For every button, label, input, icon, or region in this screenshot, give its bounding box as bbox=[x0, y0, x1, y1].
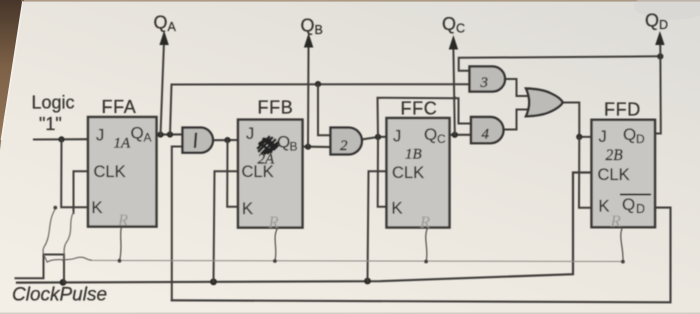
reset drop FFA (pencil) bbox=[120, 227, 122, 261]
svg-text:R: R bbox=[419, 213, 430, 232]
svg-text:K: K bbox=[392, 200, 403, 218]
node: QA line to gate2 junction bbox=[315, 81, 321, 87]
node: FFD J junction bbox=[576, 134, 582, 140]
wire: FFB J-K tie bbox=[227, 140, 238, 207]
node: FFB J junction bbox=[224, 137, 230, 143]
node: reset dot FFD bbox=[621, 260, 625, 264]
svg-text:Q: Q bbox=[424, 125, 437, 144]
svg-text:K: K bbox=[242, 200, 253, 218]
wire: QA feedback long line to gate 3 bbox=[170, 84, 470, 134]
node: QB dot bbox=[305, 144, 311, 150]
pencil squiggle b (FFA K area) bbox=[43, 209, 55, 263]
svg-text:Q: Q bbox=[154, 13, 168, 33]
wire: FFD J-K tie bbox=[579, 137, 592, 208]
paper edge highlight bbox=[2, 1, 24, 140]
svg-text:1A: 1A bbox=[114, 136, 132, 152]
wire: QD output and arrow riser bbox=[655, 44, 661, 134]
wire: QC arrow riser bbox=[453, 49, 454, 135]
AND gate 1 bbox=[183, 128, 213, 153]
reset drop FFB (pencil) bbox=[275, 228, 278, 261]
flip-flop FFA bbox=[88, 117, 157, 227]
svg-text:3: 3 bbox=[480, 75, 489, 91]
node: Logic-1 junction bbox=[58, 136, 64, 142]
svg-text:C: C bbox=[456, 22, 465, 36]
node: reset dot FFA bbox=[118, 259, 122, 263]
arrowhead QA bbox=[159, 31, 168, 46]
wire: QD top feedback line to gate 3 bbox=[459, 56, 661, 71]
AND gate 3 bbox=[470, 66, 505, 91]
node: QA dot 1 bbox=[157, 132, 163, 138]
svg-text:D: D bbox=[636, 202, 645, 216]
wire: clock bus bbox=[17, 173, 592, 283]
wire: NOT-Q D riser to gate 1 lower input bbox=[172, 147, 183, 301]
wire: gate 2 output to FFC J bbox=[362, 137, 387, 140]
reset drop FFC (pencil) bbox=[426, 228, 428, 262]
node: QD top junction bbox=[657, 53, 663, 59]
wire: FFA CLK input L bbox=[74, 171, 89, 213]
svg-text:Logic: Logic bbox=[32, 93, 75, 113]
node: reset dot FFC bbox=[424, 260, 428, 264]
svg-text:C: C bbox=[437, 132, 446, 146]
svg-text:K: K bbox=[92, 199, 103, 217]
svg-text:R: R bbox=[610, 212, 622, 231]
svg-text:FFA: FFA bbox=[102, 97, 137, 117]
handwritten 1 in gate 1 bbox=[195, 134, 196, 147]
arrowhead QD bbox=[655, 31, 664, 45]
node: FFC J junction bbox=[375, 134, 381, 140]
svg-text:FFC: FFC bbox=[401, 99, 438, 119]
pencil squiggle c (joins reset line) bbox=[47, 257, 91, 262]
wire: QB arrow riser bbox=[307, 47, 310, 147]
svg-text:CLK: CLK bbox=[94, 163, 126, 181]
wire: QA output to gate 1 bbox=[157, 133, 183, 135]
OR gate bbox=[526, 89, 563, 117]
wire: gate2 output feedback over FFC to gate 4 bbox=[378, 98, 472, 137]
node: bus dot FFC bbox=[364, 278, 371, 285]
svg-text:"1": "1" bbox=[39, 114, 62, 134]
AND gate 4 bbox=[471, 117, 503, 143]
wire: QA arrow riser bbox=[161, 44, 164, 135]
reset drop FFD (pencil) bbox=[621, 227, 623, 261]
wire: OR output to FFD J bbox=[563, 103, 592, 137]
handwritten scribble in FFB bbox=[258, 137, 278, 154]
svg-text:R: R bbox=[268, 213, 279, 232]
node: small crossing blob on QC riser bbox=[453, 96, 456, 99]
arrowhead QB bbox=[304, 33, 313, 48]
svg-text:J: J bbox=[246, 125, 254, 143]
svg-text:2B: 2B bbox=[606, 147, 624, 164]
svg-text:J: J bbox=[96, 127, 104, 145]
bottom edge shade bbox=[0, 313, 700, 314]
wire: FFC CLK riser bbox=[368, 171, 387, 281]
svg-text:Q: Q bbox=[301, 16, 315, 36]
svg-text:J: J bbox=[599, 128, 607, 146]
svg-text:K: K bbox=[599, 198, 610, 216]
AND gate 2 bbox=[331, 128, 362, 155]
node: QA dot 2 bbox=[167, 131, 173, 137]
svg-text:4: 4 bbox=[482, 127, 490, 143]
clock pulse waveform symbol bbox=[16, 255, 65, 283]
svg-text:Q: Q bbox=[623, 125, 636, 144]
wire: drop to gate 2 top input bbox=[318, 84, 331, 135]
svg-text:Q: Q bbox=[442, 14, 456, 34]
flip-flop FFD bbox=[592, 120, 656, 227]
wood strip top edge bbox=[21, 0, 700, 2]
flip-flop FFC bbox=[387, 118, 450, 228]
svg-text:A: A bbox=[144, 131, 152, 145]
svg-text:Q: Q bbox=[131, 124, 144, 143]
node: bus dot FFB bbox=[210, 278, 217, 285]
svg-text:CLK: CLK bbox=[598, 166, 630, 184]
wire: FFB CLK riser bbox=[214, 171, 239, 281]
svg-text:Q: Q bbox=[277, 133, 290, 152]
svg-text:2A: 2A bbox=[258, 152, 276, 168]
overline for NOT-QD bbox=[621, 193, 650, 195]
wire: Logic 1 input to FFA J bbox=[34, 138, 88, 140]
node: reset dot FFB bbox=[273, 259, 277, 263]
wire: FFA J-K tie bbox=[61, 139, 88, 207]
arrowhead QC bbox=[449, 35, 458, 50]
node: QC dot bbox=[452, 132, 458, 138]
node: bus dot FFA bbox=[60, 279, 67, 286]
svg-text:A: A bbox=[168, 20, 177, 34]
flip-flop FFB bbox=[238, 120, 303, 228]
svg-text:1B: 1B bbox=[405, 147, 422, 163]
reset thin line bbox=[91, 260, 623, 261]
wire: FFC J-K tie bbox=[378, 137, 387, 207]
node: pencil dot at FFA K bbox=[53, 206, 57, 210]
svg-text:R: R bbox=[117, 211, 128, 230]
svg-text:D: D bbox=[659, 18, 668, 32]
wire: gate 4 output to OR bbox=[504, 110, 527, 130]
wire: QC output to gate 4 bbox=[450, 134, 472, 136]
svg-text:CLK: CLK bbox=[392, 164, 424, 182]
svg-text:FFD: FFD bbox=[604, 100, 641, 120]
pencil squiggle a (FFA CLK continuation) bbox=[63, 212, 74, 261]
faint shadow smudge top-right bbox=[634, 0, 700, 20]
svg-text:FFB: FFB bbox=[258, 98, 294, 118]
svg-text:J: J bbox=[393, 128, 401, 146]
svg-text:D: D bbox=[636, 132, 645, 146]
svg-text:B: B bbox=[290, 140, 298, 154]
svg-text:Q: Q bbox=[645, 11, 659, 31]
wire: NOT-QD output feedback bottom line bbox=[172, 208, 671, 303]
svg-text:ClockPulse: ClockPulse bbox=[12, 285, 107, 306]
svg-text:Q: Q bbox=[622, 195, 635, 214]
svg-text:2: 2 bbox=[340, 138, 348, 154]
wire: gate 3 output to OR bbox=[505, 79, 527, 96]
wood table corner top-left bbox=[0, 0, 24, 150]
wire: gate 1 output to FFB J bbox=[215, 139, 238, 141]
svg-text:B: B bbox=[315, 23, 323, 37]
wire: QB output to gate 2 bbox=[303, 146, 331, 148]
